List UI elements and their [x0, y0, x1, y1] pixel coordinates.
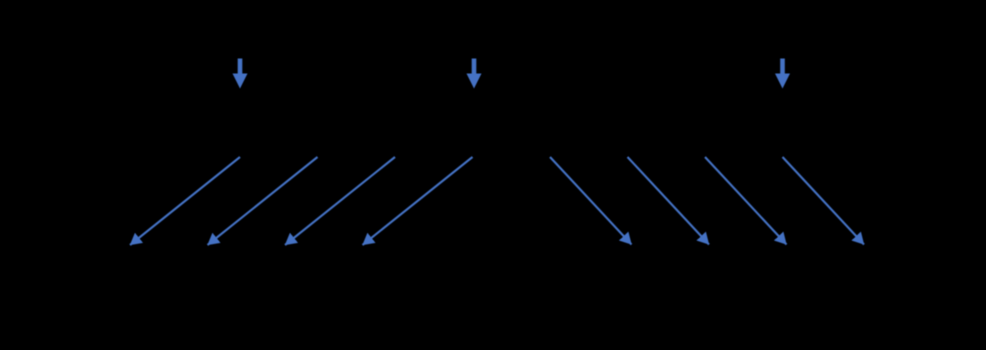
diagonal arrow L1 — [130, 157, 240, 245]
diagonal arrow L4 — [363, 157, 473, 245]
diagonal arrow L2 — [208, 157, 318, 245]
diagonal arrow R3 — [705, 157, 787, 245]
down arrow 2 — [467, 59, 482, 89]
down arrow 3 — [775, 59, 790, 89]
diagonal arrow L3 — [285, 157, 395, 245]
down arrow 1 — [233, 59, 248, 89]
diagonal arrow R1 — [550, 157, 632, 245]
diagonal arrow R4 — [783, 157, 865, 245]
diagonal arrow R2 — [628, 157, 710, 245]
